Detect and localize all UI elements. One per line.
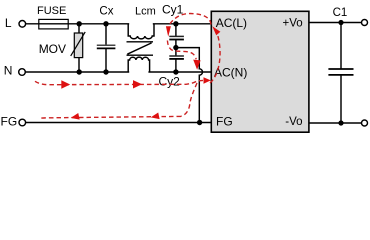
red noise path: inside module AC(N) to AC(L): [210, 31, 220, 83]
terminal N: [19, 69, 26, 76]
red arrow left 2 on FG path: [150, 113, 160, 121]
fuse F1: [39, 19, 68, 29]
svg-text:C1: C1: [333, 7, 348, 19]
red noise path: FG return line (arrows left): [39, 116, 181, 118]
svg-text:Cy1: Cy1: [162, 3, 184, 17]
node Cx top: [103, 21, 108, 26]
wire -Vo rail: [309, 122, 362, 124]
red arrow down at hop wire: [193, 60, 200, 70]
node Cy mid junction: [173, 45, 178, 50]
wire N rail: [25, 71, 211, 73]
svg-text:L: L: [5, 16, 12, 30]
red arrow down through Cy1: [166, 26, 171, 37]
red noise path: AC(L) back to Cy1 (top arc): [170, 14, 211, 25]
node C1 bottom: [338, 120, 343, 125]
terminal -Vo output: [362, 120, 368, 126]
svg-text:-Vo: -Vo: [285, 116, 302, 128]
red noise path: N line forward (arrows right): [35, 80, 203, 84]
varistor MOV: [71, 24, 86, 72]
red noise path: Cy1 mid to N-rail area (curve): [167, 41, 196, 60]
wire N rail gap cover at choke: [129, 71, 148, 74]
wire FG rail: [26, 122, 211, 124]
svg-text:AC(L): AC(L): [216, 16, 247, 30]
capacitor Cy2: [169, 48, 184, 72]
node MOV bottom junction: [77, 69, 82, 74]
svg-text:FUSE: FUSE: [37, 5, 66, 17]
inductor Lcm bottom winding: [128, 57, 149, 72]
red arrow left 1 on FG path: [70, 113, 80, 121]
node Cy2 bottom: [173, 69, 178, 74]
node FG junction: [197, 120, 202, 125]
svg-text:FG: FG: [1, 115, 18, 129]
svg-text:N: N: [4, 63, 13, 77]
module U1 (power module box): [211, 11, 309, 132]
inductor Lcm core lines: [127, 42, 154, 55]
node Cx bottom: [103, 69, 108, 74]
svg-text:Cx: Cx: [99, 6, 113, 18]
terminal L: [19, 21, 26, 28]
wire L rail: [26, 23, 211, 25]
capacitor C1: [328, 23, 353, 124]
red arrow into module AC(N): [204, 77, 211, 83]
terminal FG: [19, 119, 26, 126]
svg-text:FG: FG: [216, 115, 233, 129]
svg-text:MOV: MOV: [39, 42, 66, 56]
svg-text:Lcm: Lcm: [135, 6, 156, 18]
svg-text:+Vo: +Vo: [283, 18, 303, 30]
wire Cy midpoint to FG (with hop over N rail): [176, 48, 203, 123]
capacitor Cy1: [169, 24, 184, 48]
node fuse/MOV junction: [77, 21, 82, 26]
wire +Vo rail: [309, 22, 362, 24]
svg-text:Cy2: Cy2: [159, 74, 181, 88]
red arrow right 1 on N path: [61, 80, 70, 89]
inductor Lcm common-mode choke top winding: [128, 24, 154, 39]
wire L rail gap cover at choke: [129, 23, 153, 26]
red noise path: down to FG return: [181, 83, 197, 116]
red arrow up toward AC(L): [212, 26, 220, 35]
red arrow right 2 on N path: [133, 80, 142, 88]
capacitor Cx: [97, 24, 116, 72]
terminal +Vo output: [362, 20, 368, 26]
node C1 top: [338, 20, 343, 25]
node Cy1 top: [173, 21, 178, 26]
